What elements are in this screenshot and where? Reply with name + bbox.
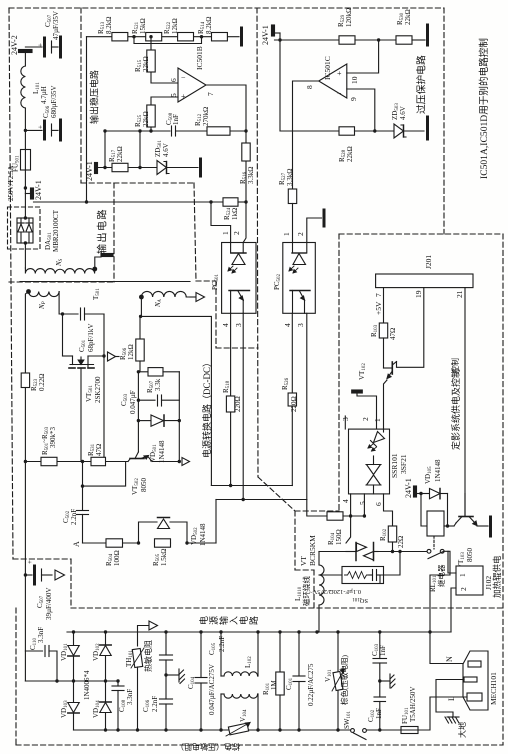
- winding Np: [29, 292, 60, 297]
- wire divider bypass jumper: [134, 37, 202, 44]
- ground for ZD501: [199, 159, 202, 176]
- junction dot C102 rail: [378, 728, 381, 731]
- switch SW101: [351, 729, 401, 740]
- node 24V-2 terminal: [19, 50, 33, 67]
- svg-text:2: 2: [459, 587, 468, 591]
- resistor R507 3.3k: [138, 368, 179, 376]
- label RL101 继电器: [429, 564, 446, 592]
- junction dot Ns end (phase): [92, 267, 97, 272]
- diode pack DA501 MBR20100CT dashed outline: [8, 207, 41, 249]
- label J102 加热辊供电: [484, 555, 502, 598]
- wire VT102 emitter to SSR pin1: [384, 380, 388, 429]
- wire R527 to PC502 pin1: [292, 204, 294, 243]
- svg-text:1nF: 1nF: [172, 114, 180, 125]
- svg-text:输: 输: [218, 616, 229, 625]
- svg-text:6: 6: [374, 502, 383, 506]
- label C104: [187, 664, 216, 715]
- phototransistor inside PC501: [229, 291, 250, 314]
- svg-text:21: 21: [455, 290, 464, 298]
- svg-text:100Ω: 100Ω: [113, 550, 121, 566]
- label C502: [62, 509, 78, 525]
- transformer T501 core: [20, 281, 190, 283]
- winding NA: [141, 291, 190, 297]
- wire clamp right leg: [178, 372, 180, 462]
- diode DA501 element B: [26, 218, 32, 243]
- capacitor C108 3.3nF: [112, 681, 124, 730]
- resistor R527 3.3k: [288, 189, 296, 204]
- chassis ground C103: [380, 674, 395, 688]
- junction dots sense row: [24, 460, 181, 463]
- junction dot C103 bottom: [378, 679, 381, 682]
- label R501~R503: [41, 426, 57, 455]
- capacitor C103 1nF: [373, 632, 387, 681]
- snubber SQ101 box: [342, 567, 384, 584]
- svg-text:270kΩ: 270kΩ: [202, 107, 210, 126]
- label C108: [118, 689, 134, 712]
- svg-text:8050: 8050: [140, 478, 148, 493]
- junction dot C507b node: [24, 573, 27, 576]
- wire SQ101 right riser: [380, 552, 400, 584]
- triac inside SSR101: [366, 456, 381, 494]
- wire base branch to C502: [83, 462, 126, 487]
- svg-text:680µF/35V: 680µF/35V: [50, 86, 58, 118]
- label VD105: [424, 459, 442, 484]
- wire J102 pin1: [448, 551, 456, 573]
- label R517: [108, 146, 124, 162]
- resistor R515 22k: [147, 50, 155, 72]
- junction dot rail N: [428, 630, 431, 633]
- wire rail AC top y632: [67, 631, 430, 633]
- ground for VT103: [489, 517, 492, 536]
- svg-text:24V-2: 24V-2: [10, 35, 19, 55]
- label R513: [97, 17, 113, 34]
- MOSFET VT501 2SK2700: [63, 356, 105, 368]
- svg-text:0.22µF/AC275: 0.22µF/AC275: [307, 663, 315, 706]
- wire NA node row: [140, 316, 211, 485]
- junction dot heater node: [391, 550, 394, 553]
- svg-text:150Ω: 150Ω: [335, 529, 343, 545]
- wire R529 to R530: [355, 39, 396, 41]
- phototransistor inside PC502: [290, 291, 310, 314]
- wire FU501 to DA501: [24, 170, 26, 218]
- label R527: [278, 169, 294, 186]
- label R524: [223, 207, 239, 220]
- label SSR101: [390, 453, 408, 478]
- wire sense row y461.5: [25, 461, 179, 463]
- wire PC501 pin4 down to R518: [230, 313, 232, 396]
- wire VD105 right leg: [447, 494, 449, 527]
- junction dot clamp right: [178, 419, 181, 422]
- junction dots node A: [137, 541, 189, 544]
- label C503: [120, 390, 137, 414]
- relay contact: [427, 549, 444, 558]
- junction dots clamp left: [137, 370, 140, 422]
- resistor R528 22k: [339, 127, 355, 135]
- varistor V104: [226, 723, 250, 737]
- inductor L101 4.7uH: [21, 66, 26, 108]
- label R525: [134, 111, 150, 127]
- svg-text:1N4006*4: 1N4006*4: [83, 670, 91, 700]
- resistor R101 1M: [276, 632, 284, 730]
- optocoupler PC501 box: [222, 243, 256, 314]
- socket MECH101: [463, 651, 488, 710]
- wire SSR pin2 to ground: [357, 393, 377, 429]
- junction dot C103 top: [378, 630, 381, 633]
- wire ref taps up: [105, 131, 140, 168]
- resistor R531 47: [91, 457, 106, 465]
- ground for C506: [59, 120, 62, 140]
- diode VD104: [100, 681, 111, 730]
- label L101: [32, 82, 48, 104]
- svg-text:4.6V: 4.6V: [162, 143, 170, 157]
- svg-text:6: 6: [169, 78, 178, 82]
- wire PC501 pin1 path: [211, 202, 231, 243]
- svg-text:5: 5: [358, 501, 367, 505]
- svg-text:2: 2: [361, 417, 370, 421]
- ground for PC502 pin2: [323, 210, 326, 226]
- label R522: [163, 18, 179, 34]
- wire R523 down: [24, 388, 26, 576]
- wire pin4 node to triac gate: [346, 516, 351, 543]
- winding Ns: [25, 268, 94, 274]
- junction dot C506 tap: [24, 129, 27, 132]
- label R529: [337, 8, 353, 27]
- svg-text:4.7µH: 4.7µH: [40, 86, 48, 104]
- svg-text:10: 10: [350, 76, 359, 84]
- svg-text:12kΩ: 12kΩ: [171, 18, 179, 34]
- svg-text:8050: 8050: [466, 548, 474, 563]
- junction dot row Q / pin3: [242, 498, 245, 501]
- junction dot C502 top: [81, 484, 84, 487]
- wire contact to heater line: [430, 551, 450, 632]
- wire pin7 to R103: [383, 288, 385, 323]
- label 电源输入电路: [198, 616, 259, 625]
- label C507 39uF/400V: [36, 588, 53, 620]
- label C105 2.2nF: [208, 636, 226, 655]
- resistor inside SQ101: [345, 572, 370, 579]
- junction dot VD105/coil: [446, 524, 449, 527]
- diode VD502 1N4148 loop: [139, 518, 188, 544]
- LED inside PC501: [228, 243, 246, 274]
- svg-text:24V-1: 24V-1: [261, 25, 270, 45]
- wire C501 right leg: [103, 314, 105, 462]
- junction dots rail730: [104, 728, 340, 731]
- resistor R103 47: [379, 323, 387, 338]
- svg-text:SSR101: SSR101: [390, 453, 399, 478]
- label R523: [30, 374, 46, 391]
- label 棕色(压敏电阻) V104: [176, 742, 240, 752]
- label R514: [197, 17, 213, 34]
- wire resistor row: [87, 36, 240, 38]
- label ZD503: [391, 103, 407, 120]
- svg-text:24V-1: 24V-1: [404, 478, 413, 498]
- svg-text:定影系统供电及控制: 定影系统供电及控制: [450, 369, 461, 450]
- svg-text:68pF/1kV: 68pF/1kV: [87, 324, 95, 352]
- capacitor C102 1nF: [374, 681, 386, 730]
- wire PC502 pin2 to ground: [307, 218, 322, 243]
- svg-text:热敏电阻: 热敏电阻: [143, 640, 153, 672]
- resistor R522 12k: [178, 33, 194, 41]
- zener ZD503 4.6V: [394, 124, 424, 138]
- wire R517 to ZD501: [128, 167, 157, 169]
- svg-text:J201: J201: [424, 255, 433, 269]
- svg-text:15kΩ: 15kΩ: [139, 18, 147, 34]
- net arrow DC bus: [55, 570, 65, 580]
- capacitor C501 68pF/1kV: [63, 308, 105, 320]
- resistor R521 15k: [146, 33, 162, 41]
- junction dot C501: [61, 312, 64, 315]
- junction dot source node: [102, 354, 105, 357]
- wire divider feed (left vertical): [86, 37, 88, 202]
- wire contact down to N: [430, 632, 463, 664]
- svg-text:0.047µF: 0.047µF: [129, 390, 137, 414]
- label R504: [105, 550, 121, 566]
- svg-text:7: 7: [374, 293, 383, 297]
- capacitor C110 3.3nF: [25, 646, 57, 682]
- wire DC bus down: [24, 575, 26, 681]
- label VD502: [190, 523, 207, 546]
- svg-text:棕色(压敏电阻): 棕色(压敏电阻): [339, 655, 349, 705]
- svg-text:1.5kΩ: 1.5kΩ: [160, 549, 168, 566]
- svg-text:2.2nF: 2.2nF: [70, 509, 78, 525]
- svg-text:3.3kΩ: 3.3kΩ: [286, 169, 294, 186]
- label R528: [338, 146, 354, 162]
- ground for SSR pin2: [352, 390, 363, 393]
- node 24V-1 terminal (output): [25, 188, 33, 199]
- wire NA to node row: [140, 297, 142, 316]
- resistor R526 220: [288, 393, 296, 406]
- label R516: [239, 167, 255, 184]
- wire pin7 output: [206, 85, 246, 202]
- junction dot 24V node: [419, 492, 422, 495]
- svg-text:0.1µF-120Ω/275V~: 0.1µF-120Ω/275V~: [309, 588, 361, 595]
- wire Np right to drain: [59, 292, 62, 357]
- svg-text:24V-1: 24V-1: [85, 161, 94, 181]
- svg-text:IC501B: IC501B: [195, 46, 204, 70]
- junction dot NA node: [139, 315, 142, 318]
- svg-text:220Ω: 220Ω: [290, 396, 298, 412]
- label R521: [131, 18, 147, 34]
- label R505: [152, 549, 168, 566]
- capacitor C506 680uF/35V: [37, 121, 59, 139]
- svg-text:0.047µF/AC275V: 0.047µF/AC275V: [208, 664, 216, 715]
- svg-text:A: A: [72, 541, 81, 547]
- resistor R505 1.5k: [155, 539, 171, 547]
- svg-text:入: 入: [229, 616, 239, 625]
- wire heater node row: [378, 551, 427, 553]
- svg-text:22kΩ: 22kΩ: [346, 146, 354, 162]
- svg-text:+: +: [181, 92, 186, 101]
- label SQ101: [309, 588, 368, 604]
- label C103: [371, 643, 387, 656]
- junction dot 24V-1 tap: [24, 186, 27, 189]
- capacitor C508 1nF: [172, 126, 176, 136]
- resistor R523 0.22: [21, 373, 29, 388]
- label FU501: [7, 155, 21, 201]
- svg-text:2: 2: [232, 231, 241, 235]
- resistor R524 1k: [223, 198, 238, 206]
- svg-text:1kΩ: 1kΩ: [231, 208, 239, 220]
- wire R515 to pin6: [151, 72, 178, 83]
- ground for R514: [240, 28, 243, 45]
- junction dots divider: [132, 35, 203, 38]
- svg-text:8.2kΩ: 8.2kΩ: [205, 17, 213, 34]
- junction dot pin9 node: [373, 129, 376, 132]
- resistor R514 8.2k: [212, 33, 228, 41]
- junction dot NA start (phase): [139, 295, 144, 300]
- junction dots DA501: [24, 216, 27, 244]
- svg-text:120kΩ: 120kΩ: [345, 8, 353, 27]
- label V101 棕色(压敏电阻): [324, 655, 349, 705]
- wire SQ101 left: [319, 574, 342, 576]
- svg-text:IC501C: IC501C: [323, 56, 332, 80]
- svg-text:1nF: 1nF: [379, 645, 387, 656]
- fuse FU501 250V/T2.5A: [21, 150, 31, 171]
- wire R525 to pin5: [151, 97, 178, 105]
- resistor R512 270k: [207, 127, 230, 135]
- svg-text:3.3k: 3.3k: [154, 378, 162, 391]
- junction dot pin5: [363, 514, 366, 517]
- svg-text:39µF/400V: 39µF/400V: [45, 588, 53, 620]
- svg-text:+: +: [26, 560, 34, 564]
- node 24V-1 terminal (protection rail): [272, 25, 340, 40]
- svg-text:输出电路: 输出电路: [96, 208, 109, 254]
- wire PC501 pin2 path: [243, 202, 246, 243]
- junction dot Y-cap mid: [164, 673, 167, 676]
- svg-text:−: −: [337, 89, 342, 98]
- label TH101 热敏电阻: [125, 640, 153, 672]
- wire SSR pin5 down: [363, 494, 365, 516]
- svg-text:3.3nF: 3.3nF: [37, 627, 45, 643]
- label R102: [379, 528, 405, 548]
- resistor R517 22k: [112, 163, 128, 171]
- wire PC502 pin3 leg: [306, 313, 308, 499]
- relay SSR101 box: [349, 429, 390, 494]
- LED inside PC502: [289, 243, 307, 274]
- wire 24V-1 output rail y202: [34, 201, 224, 203]
- junction dots rail y202: [85, 200, 248, 203]
- svg-text:3.3nF: 3.3nF: [126, 689, 134, 705]
- label R518: [222, 380, 242, 412]
- svg-text:24V-1: 24V-1: [34, 180, 43, 200]
- junction dots rail681: [55, 679, 107, 682]
- relay contact link: [433, 536, 435, 549]
- wire pin5 joins R104 row: [343, 515, 364, 517]
- label R506: [119, 344, 135, 360]
- svg-text:棕色（压敏电阻）: 棕色（压敏电阻）: [176, 742, 240, 752]
- svg-text:+: +: [37, 125, 45, 129]
- wire pin9 down to zener row: [347, 89, 375, 131]
- net arrow return line: [138, 621, 158, 646]
- svg-text:1: 1: [282, 232, 291, 236]
- svg-text:22kΩ: 22kΩ: [142, 111, 150, 127]
- junction dot SQ tap: [398, 550, 401, 553]
- svg-text:4: 4: [221, 323, 230, 327]
- svg-text:0.22Ω: 0.22Ω: [38, 374, 46, 391]
- label C507: [44, 11, 60, 40]
- svg-text:12kΩ: 12kΩ: [127, 344, 135, 360]
- svg-text:3: 3: [296, 323, 305, 327]
- junction dot Np start (phase): [26, 289, 31, 294]
- svg-text:5: 5: [169, 93, 178, 97]
- wire L101 to FU501: [24, 108, 26, 150]
- LED inside SSR101: [368, 429, 385, 451]
- triac VT BCR5KM: [346, 543, 378, 561]
- svg-text:N: N: [445, 656, 454, 662]
- label C501: [78, 324, 95, 352]
- diode pack DA501 body: [17, 218, 33, 243]
- svg-text:22kΩ: 22kΩ: [404, 9, 412, 25]
- svg-text:−: −: [181, 73, 186, 82]
- svg-text:MECH101: MECH101: [489, 672, 498, 705]
- varistor V101: [332, 632, 345, 730]
- wire 24V-2 rail to C507: [25, 46, 42, 48]
- label ZD501: [154, 140, 170, 157]
- capacitor C503 0.047uF: [138, 395, 179, 406]
- svg-text:+: +: [337, 69, 342, 78]
- svg-text:1M: 1M: [270, 680, 278, 691]
- choke L102 winding 2: [221, 694, 258, 730]
- svg-text:BCR5KM: BCR5KM: [308, 535, 317, 566]
- svg-text:22kΩ: 22kΩ: [142, 56, 150, 72]
- wire L1010 node: [319, 551, 346, 553]
- label R507: [146, 378, 162, 393]
- transistor VT102: [384, 362, 397, 379]
- svg-text:+: +: [37, 43, 45, 47]
- svg-text:IC501A,IC501D用于别的电路控制: IC501A,IC501D用于别的电路控制: [478, 38, 490, 179]
- resistor R529 120k: [339, 36, 355, 44]
- chassis ground 大地: [445, 717, 459, 723]
- svg-text:3SF21: 3SF21: [399, 454, 408, 474]
- resistor R506 12k body: [136, 316, 144, 371]
- svg-text:7: 7: [206, 92, 215, 96]
- svg-text:4: 4: [341, 499, 350, 503]
- junction dots ref row: [103, 166, 141, 169]
- wire coil to VT103 collector: [444, 525, 454, 527]
- svg-text:390k*3: 390k*3: [49, 427, 57, 449]
- svg-text:47Ω: 47Ω: [389, 328, 397, 340]
- wire J102 pin2: [451, 588, 456, 632]
- inductor L1010: [319, 552, 324, 633]
- capacitor C502 2.2nF: [77, 511, 89, 544]
- capacitor C106 2.2nF: [160, 675, 173, 730]
- diode VD102: [100, 632, 111, 681]
- svg-text:47Ω: 47Ω: [95, 444, 103, 456]
- resistor R518 220: [226, 396, 234, 412]
- capacitor C507 39uF/400V (bulk): [25, 560, 52, 584]
- label C101: [285, 663, 315, 706]
- wire drain sense down: [82, 462, 84, 511]
- svg-text:电: 电: [238, 616, 249, 625]
- label C506: [42, 86, 58, 118]
- connector J201 box: [376, 274, 473, 288]
- diode VD103: [68, 681, 79, 730]
- wire R103 to VT102 base: [383, 338, 385, 368]
- svg-text:2: 2: [296, 232, 305, 236]
- resistor R102 22: [388, 526, 396, 542]
- svg-text:3.3kΩ: 3.3kΩ: [247, 167, 255, 184]
- diode VD101: [68, 632, 79, 681]
- svg-text:电源转换电路（DC-DC）: 电源转换电路（DC-DC）: [201, 358, 212, 458]
- svg-text:+5V: +5V: [374, 301, 383, 315]
- svg-text:路: 路: [248, 616, 259, 625]
- diode DA501 element A: [18, 218, 24, 243]
- svg-text:220Ω: 220Ω: [234, 396, 242, 412]
- wire PC502 pin4 leg: [291, 313, 293, 393]
- wire to C506: [25, 129, 42, 131]
- svg-text:22Ω: 22Ω: [397, 536, 405, 548]
- wire R518 to row P: [230, 412, 232, 486]
